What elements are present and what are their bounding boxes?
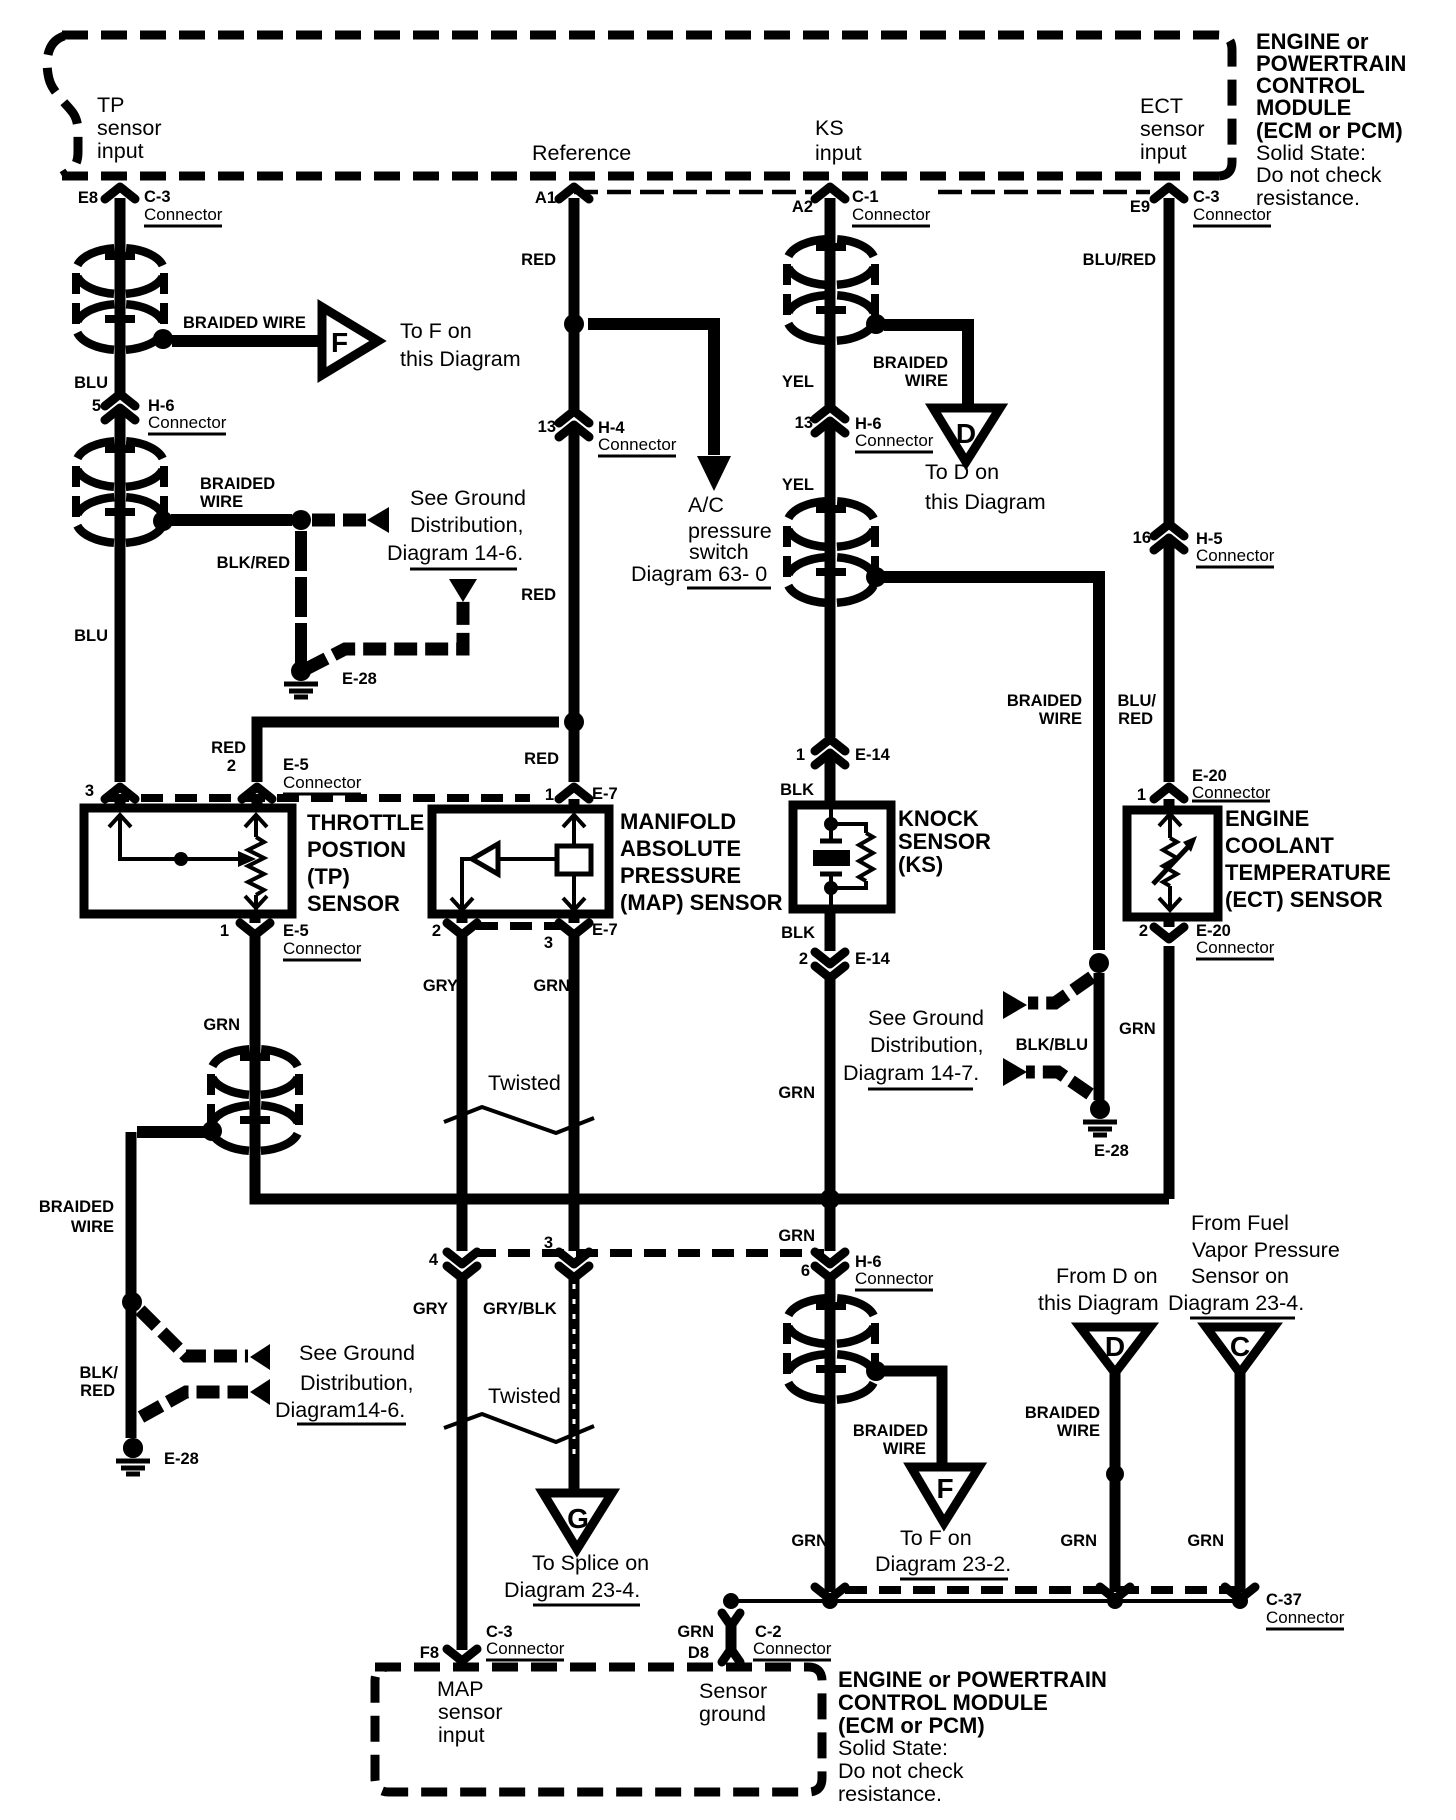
svg-text:2: 2 [227, 757, 236, 775]
svg-text:Distribution,: Distribution, [410, 513, 524, 537]
svg-text:Connector: Connector [1266, 1608, 1345, 1627]
svg-text:16: 16 [1133, 529, 1151, 547]
svg-text:F: F [936, 1473, 953, 1504]
svg-text:BRAIDED: BRAIDED [1007, 692, 1082, 710]
svg-text:YEL: YEL [782, 373, 814, 391]
svg-text:WIRE: WIRE [1057, 1422, 1100, 1440]
svg-text:KNOCK: KNOCK [898, 806, 979, 831]
svg-text:this Diagram: this Diagram [925, 490, 1046, 514]
svg-text:Connector: Connector [1196, 546, 1275, 565]
svg-text:BRAIDED: BRAIDED [853, 1422, 928, 1440]
svg-text:sensor: sensor [1140, 117, 1205, 141]
svg-text:4: 4 [429, 1251, 439, 1269]
svg-text:resistance.: resistance. [1256, 186, 1360, 210]
svg-text:See Ground: See Ground [868, 1006, 984, 1030]
svg-text:SENSOR: SENSOR [307, 891, 400, 916]
svg-text:1: 1 [1137, 786, 1146, 804]
svg-text:To Splice on: To Splice on [532, 1551, 649, 1575]
svg-text:From Fuel: From Fuel [1191, 1211, 1289, 1235]
svg-text:2: 2 [1139, 922, 1148, 940]
svg-text:Connector: Connector [1192, 783, 1271, 802]
svg-text:POSTION: POSTION [307, 837, 406, 862]
svg-text:E-28: E-28 [1094, 1142, 1129, 1160]
svg-text:TP: TP [97, 93, 124, 117]
svg-text:RED: RED [211, 739, 246, 757]
svg-text:input: input [97, 139, 144, 163]
svg-text:KS: KS [815, 116, 844, 140]
svg-text:E-5: E-5 [283, 922, 309, 940]
svg-text:WIRE: WIRE [1039, 710, 1082, 728]
svg-text:SENSOR: SENSOR [898, 829, 991, 854]
svg-text:Connector: Connector [283, 939, 362, 958]
svg-text:2: 2 [432, 922, 441, 940]
svg-text:GRY: GRY [423, 977, 458, 995]
svg-text:Connector: Connector [598, 435, 677, 454]
svg-text:COOLANT: COOLANT [1225, 833, 1334, 858]
svg-text:GRY: GRY [413, 1300, 448, 1318]
svg-text:A1: A1 [535, 189, 556, 207]
svg-text:sensor: sensor [438, 1700, 503, 1724]
svg-text:To F on: To F on [900, 1526, 972, 1550]
svg-text:6: 6 [801, 1262, 810, 1280]
svg-text:(ECM or PCM): (ECM or PCM) [838, 1713, 985, 1738]
svg-text:GRN: GRN [533, 977, 570, 995]
svg-text:To F on: To F on [400, 319, 472, 343]
svg-text:E-28: E-28 [342, 670, 377, 688]
svg-text:F: F [331, 327, 348, 358]
svg-text:(ECM or PCM): (ECM or PCM) [1256, 118, 1403, 143]
svg-text:GRN: GRN [778, 1227, 815, 1245]
svg-text:See Ground: See Ground [410, 486, 526, 510]
svg-text:1: 1 [220, 922, 229, 940]
svg-text:resistance.: resistance. [838, 1782, 942, 1806]
svg-text:Twisted: Twisted [488, 1071, 561, 1095]
svg-text:ECT: ECT [1140, 94, 1183, 118]
svg-text:THROTTLE: THROTTLE [307, 810, 424, 835]
svg-text:GRY/BLK: GRY/BLK [483, 1300, 557, 1318]
svg-text:switch: switch [689, 540, 749, 564]
svg-text:PRESSURE: PRESSURE [620, 863, 741, 888]
svg-text:ABSOLUTE: ABSOLUTE [620, 836, 741, 861]
svg-text:RED: RED [521, 251, 556, 269]
svg-text:Diagram 63- 0: Diagram 63- 0 [631, 562, 767, 586]
svg-text:Diagram 23-4.: Diagram 23-4. [504, 1578, 640, 1602]
svg-text:Twisted: Twisted [488, 1384, 561, 1408]
svg-text:Reference: Reference [532, 141, 631, 165]
svg-text:(MAP) SENSOR: (MAP) SENSOR [620, 890, 783, 915]
svg-text:BRAIDED: BRAIDED [1025, 1404, 1100, 1422]
svg-text:RED: RED [524, 750, 559, 768]
svg-text:To D on: To D on [925, 460, 999, 484]
svg-text:input: input [1140, 140, 1187, 164]
svg-text:E9: E9 [1130, 198, 1150, 216]
svg-text:Solid State:: Solid State: [1256, 141, 1366, 165]
svg-text:D: D [1105, 1331, 1125, 1362]
svg-text:D: D [956, 418, 976, 449]
svg-text:13: 13 [538, 418, 556, 436]
svg-text:C-3: C-3 [144, 188, 171, 206]
svg-text:3: 3 [544, 934, 553, 952]
svg-text:TEMPERATURE: TEMPERATURE [1225, 860, 1391, 885]
svg-text:BLK/: BLK/ [80, 1364, 119, 1382]
svg-text:Vapor Pressure: Vapor Pressure [1192, 1238, 1340, 1262]
svg-text:input: input [438, 1723, 485, 1747]
svg-text:BLK/BLU: BLK/BLU [1016, 1036, 1088, 1054]
svg-text:BLU/: BLU/ [1118, 692, 1157, 710]
svg-text:Connector: Connector [283, 773, 362, 792]
svg-text:GRN: GRN [1187, 1532, 1224, 1550]
svg-text:YEL: YEL [782, 476, 814, 494]
svg-text:ground: ground [699, 1702, 766, 1726]
svg-text:(KS): (KS) [898, 852, 943, 877]
svg-text:E-7: E-7 [592, 785, 618, 803]
svg-text:input: input [815, 141, 862, 165]
svg-text:this Diagram: this Diagram [400, 347, 521, 371]
svg-text:C-1: C-1 [852, 188, 879, 206]
svg-text:RED: RED [80, 1382, 115, 1400]
svg-text:BLK/RED: BLK/RED [217, 554, 290, 572]
svg-text:13: 13 [795, 414, 813, 432]
svg-text:BLU/RED: BLU/RED [1083, 251, 1156, 269]
svg-text:C: C [1230, 1331, 1250, 1362]
svg-text:Sensor on: Sensor on [1191, 1264, 1289, 1288]
svg-text:Connector: Connector [1196, 938, 1275, 957]
svg-text:Connector: Connector [753, 1639, 832, 1658]
svg-text:Distribution,: Distribution, [870, 1033, 984, 1057]
svg-text:MODULE: MODULE [1256, 95, 1351, 120]
svg-text:A2: A2 [792, 198, 813, 216]
svg-text:C-37: C-37 [1266, 1591, 1302, 1609]
svg-text:G: G [567, 1503, 589, 1534]
svg-text:E-5: E-5 [283, 756, 309, 774]
svg-text:2: 2 [799, 950, 808, 968]
svg-text:MAP: MAP [437, 1677, 484, 1701]
svg-text:GRN: GRN [791, 1532, 828, 1550]
svg-text:BLK: BLK [781, 924, 815, 942]
svg-text:C-3: C-3 [1193, 188, 1220, 206]
svg-text:1: 1 [545, 786, 554, 804]
svg-text:GRN: GRN [1119, 1020, 1156, 1038]
svg-text:WIRE: WIRE [905, 372, 948, 390]
svg-text:WIRE: WIRE [71, 1218, 114, 1236]
svg-text:E-28: E-28 [164, 1450, 199, 1468]
svg-text:Connector: Connector [144, 205, 223, 224]
svg-text:ENGINE: ENGINE [1225, 806, 1309, 831]
svg-text:Diagram14-6.: Diagram14-6. [275, 1398, 405, 1422]
svg-text:(TP): (TP) [307, 864, 350, 889]
svg-text:3: 3 [544, 1234, 553, 1252]
svg-text:BLK: BLK [780, 781, 814, 799]
svg-text:E-14: E-14 [855, 950, 891, 968]
svg-text:From D on: From D on [1056, 1264, 1158, 1288]
svg-text:RED: RED [1118, 710, 1153, 728]
svg-text:Diagram 14-7.: Diagram 14-7. [843, 1061, 979, 1085]
svg-text:Connector: Connector [855, 431, 934, 450]
svg-text:ENGINE or POWERTRAIN: ENGINE or POWERTRAIN [838, 1667, 1107, 1692]
svg-text:BRAIDED WIRE: BRAIDED WIRE [183, 314, 306, 332]
svg-text:BLU: BLU [74, 627, 108, 645]
svg-text:E-7: E-7 [592, 921, 618, 939]
svg-text:Diagram 14-6.: Diagram 14-6. [387, 541, 523, 565]
svg-text:D8: D8 [688, 1644, 709, 1662]
svg-text:E-14: E-14 [855, 746, 891, 764]
svg-text:Sensor: Sensor [699, 1679, 767, 1703]
svg-text:Do not check: Do not check [838, 1759, 964, 1783]
svg-text:5: 5 [92, 397, 101, 415]
svg-text:1: 1 [796, 746, 805, 764]
svg-text:See Ground: See Ground [299, 1341, 415, 1365]
svg-text:BRAIDED: BRAIDED [873, 354, 948, 372]
svg-text:Diagram 23-4.: Diagram 23-4. [1168, 1291, 1304, 1315]
svg-text:Solid State:: Solid State: [838, 1736, 948, 1760]
svg-text:GRN: GRN [203, 1016, 240, 1034]
svg-text:Connector: Connector [148, 413, 227, 432]
svg-text:Connector: Connector [486, 1639, 565, 1658]
svg-text:Do not check: Do not check [1256, 163, 1382, 187]
svg-text:BRAIDED: BRAIDED [200, 475, 275, 493]
svg-text:Connector: Connector [855, 1269, 934, 1288]
svg-text:BLU: BLU [74, 374, 108, 392]
svg-text:this Diagram: this Diagram [1038, 1291, 1159, 1315]
svg-text:sensor: sensor [97, 116, 162, 140]
svg-text:3: 3 [85, 782, 94, 800]
svg-text:F8: F8 [420, 1644, 439, 1662]
svg-text:GRN: GRN [677, 1623, 714, 1641]
svg-text:E8: E8 [78, 189, 98, 207]
svg-text:GRN: GRN [1060, 1532, 1097, 1550]
svg-text:WIRE: WIRE [883, 1440, 926, 1458]
svg-text:MANIFOLD: MANIFOLD [620, 809, 736, 834]
svg-text:GRN: GRN [778, 1084, 815, 1102]
svg-text:Distribution,: Distribution, [300, 1371, 414, 1395]
svg-text:Diagram 23-2.: Diagram 23-2. [875, 1552, 1011, 1576]
svg-text:CONTROL MODULE: CONTROL MODULE [838, 1690, 1048, 1715]
svg-text:A/C: A/C [688, 493, 724, 517]
svg-text:(ECT) SENSOR: (ECT) SENSOR [1225, 887, 1383, 912]
svg-text:RED: RED [521, 586, 556, 604]
svg-text:WIRE: WIRE [200, 493, 243, 511]
svg-text:BRAIDED: BRAIDED [39, 1198, 114, 1216]
svg-text:Connector: Connector [852, 205, 931, 224]
svg-text:Connector: Connector [1193, 205, 1272, 224]
